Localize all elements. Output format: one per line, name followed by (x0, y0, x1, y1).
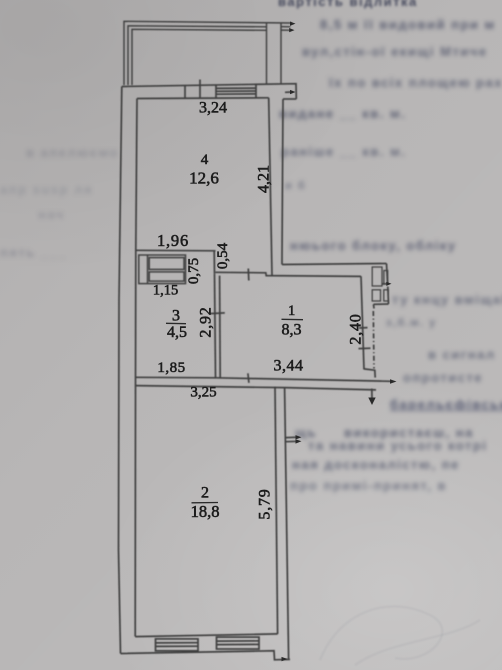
svg-text:3: 3 (172, 308, 180, 325)
svg-text:4,5: 4,5 (167, 324, 187, 341)
svg-text:5,79: 5,79 (257, 488, 274, 519)
svg-text:0,54: 0,54 (215, 242, 231, 269)
svg-text:12,6: 12,6 (189, 169, 219, 188)
svg-text:3,44: 3,44 (274, 358, 304, 375)
svg-text:2,92: 2,92 (198, 306, 215, 337)
svg-text:3,24: 3,24 (199, 100, 227, 117)
svg-text:18,8: 18,8 (191, 502, 220, 521)
svg-text:2: 2 (201, 485, 209, 502)
svg-text:8,3: 8,3 (282, 322, 302, 339)
svg-text:1,15: 1,15 (153, 283, 178, 299)
svg-text:3,25: 3,25 (190, 385, 216, 401)
svg-text:4,21: 4,21 (256, 165, 273, 193)
svg-text:2,40: 2,40 (348, 313, 365, 344)
svg-text:1,96: 1,96 (157, 231, 189, 250)
svg-text:0,75: 0,75 (186, 258, 202, 284)
svg-text:4: 4 (201, 152, 209, 168)
svg-text:1: 1 (288, 303, 295, 319)
svg-text:1,85: 1,85 (157, 360, 185, 376)
